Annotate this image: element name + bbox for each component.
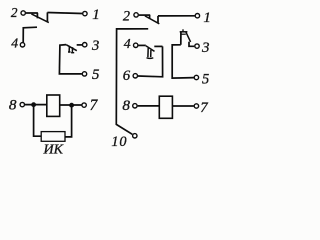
relay coil K2 box: [159, 96, 172, 118]
wire stub to pin 3: [77, 44, 83, 46]
pin 7 label right: [200, 100, 208, 116]
pin 3 terminal circle right: [195, 44, 199, 48]
pin 7 terminal circle: [82, 103, 86, 107]
wire contact to pin 1 right: [158, 15, 195, 17]
armature tick 1 K1.2: [68, 46, 70, 53]
svg-text:5: 5: [92, 67, 99, 83]
armature rail wire to pin 10: [116, 29, 148, 135]
wire contact to pin 1: [47, 13, 82, 14]
pin 7 label: [90, 97, 99, 114]
wire pin4 to contact K2.2: [138, 44, 145, 46]
pin 7 terminal circle right: [194, 104, 198, 108]
wire pin2 to contact K1.1: [26, 12, 38, 14]
pin 5 terminal circle: [82, 72, 86, 76]
wire resistor to junction right: [65, 105, 72, 137]
svg-text:8: 8: [122, 97, 130, 114]
svg-text:4: 4: [11, 36, 18, 51]
fixed contact hook step K1.1: [46, 12, 48, 21]
svg-text:7: 7: [90, 97, 99, 114]
svg-text:8: 8: [9, 96, 17, 113]
contact blade K2.1: [145, 16, 159, 24]
svg-text:1: 1: [203, 10, 211, 26]
pin 3 label: [91, 38, 99, 54]
pin 8 terminal circle: [20, 102, 24, 106]
svg-text:10: 10: [111, 134, 127, 150]
svg-text:3: 3: [91, 38, 99, 54]
contact K1.2 bracket wire to pin 5: [59, 45, 82, 74]
pin 4 terminal circle right: [134, 43, 138, 47]
armature tick 2 K2.2: [150, 50, 152, 57]
pin 6 label right: [123, 68, 131, 84]
svg-text:1: 1: [92, 7, 100, 23]
armature tick 2 foot: [71, 52, 74, 54]
pin 8 label: [9, 96, 17, 113]
pin 2 terminal circle right: [134, 13, 138, 17]
pin 4 label: [11, 36, 18, 51]
pin 6 terminal circle right: [133, 74, 137, 78]
contact blade K1.1: [31, 14, 48, 23]
pin 2 label right: [123, 8, 130, 24]
svg-text:7: 7: [200, 100, 208, 116]
pin 5 terminal circle right: [194, 75, 198, 79]
bracket wire to pin 5 right: [172, 45, 194, 78]
contact blade K2.2: [146, 46, 155, 52]
resistor IK box: [41, 132, 65, 142]
fixed contact hook step K2.3: [189, 42, 194, 47]
contact blade K2.3: [186, 32, 191, 42]
svg-text:3: 3: [201, 40, 210, 56]
armature tick 1 K2.2: [147, 48, 149, 57]
pin 1 label right: [203, 10, 211, 26]
pin 3 terminal circle: [83, 43, 87, 47]
pin 10 terminal circle: [133, 134, 137, 138]
svg-text:2: 2: [11, 5, 18, 20]
pin 1 label: [92, 7, 100, 23]
junction dot left: [31, 102, 36, 107]
svg-text:ИК: ИК: [43, 142, 64, 157]
bracket wire to pin 6: [138, 46, 163, 76]
pin 1 terminal circle: [83, 11, 87, 15]
wire pin 8 to coil: [25, 104, 46, 106]
pin 8 terminal circle right: [133, 104, 137, 108]
wire coil to pin 7 right: [173, 105, 194, 107]
pin 1 terminal circle right: [195, 14, 199, 18]
contact blade K1.2: [66, 45, 77, 51]
fixed contact hook step K2.1: [157, 16, 159, 23]
pin 5 label right: [202, 71, 209, 87]
pin 4 terminal circle: [20, 43, 24, 47]
pin 2 terminal circle: [21, 11, 25, 15]
pin 4 label right: [124, 36, 131, 51]
pin 3 label right: [201, 40, 210, 56]
wire pin8 to coil right: [138, 105, 159, 107]
svg-text:2: 2: [123, 8, 130, 24]
wire pin 4 armature link: [23, 27, 37, 42]
armature tick 2 K1.2: [71, 47, 73, 53]
svg-text:6: 6: [123, 68, 131, 84]
pin 8 label right: [122, 97, 130, 114]
armature tick 1 foot: [68, 51, 71, 53]
pivot leg wire K2.3: [180, 32, 182, 45]
pin 10 label: [111, 134, 127, 150]
pin 5 label: [92, 67, 99, 83]
wire coil to pin 7: [60, 104, 82, 106]
svg-text:5: 5: [202, 71, 209, 87]
armature inner bar K2.3: [181, 33, 186, 35]
wire junction to resistor left: [34, 105, 42, 137]
svg-text:4: 4: [124, 36, 131, 51]
resistor label IK: [43, 142, 64, 157]
wire pin2 to contact K2.1: [139, 14, 150, 16]
junction dot right: [69, 103, 74, 108]
pin 2 label: [11, 5, 18, 20]
armature bar contact K2.3: [180, 31, 188, 33]
armature stub contact K1.1: [36, 13, 38, 18]
armature stub contact K2.1: [149, 15, 151, 19]
armature foot bar K2.2: [147, 57, 154, 60]
armature top tick K2.3: [182, 29, 184, 32]
relay coil K1 box: [47, 95, 60, 116]
fixed contact stub K2.2: [154, 45, 162, 47]
